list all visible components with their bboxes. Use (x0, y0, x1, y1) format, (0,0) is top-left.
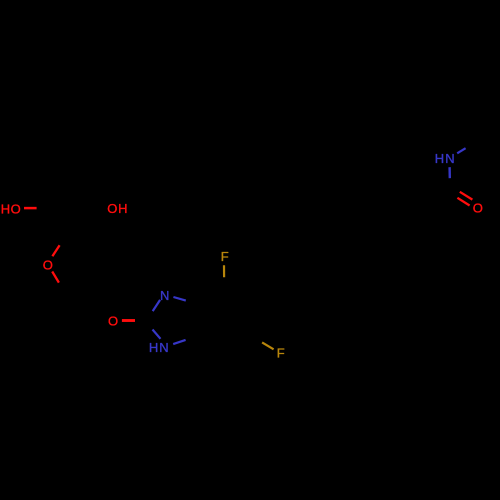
svg-text:O: O (108, 313, 118, 328)
svg-text:O: O (11, 201, 21, 216)
svg-text:H: H (435, 151, 444, 166)
svg-text:F: F (277, 346, 285, 361)
svg-text:O: O (43, 258, 53, 273)
svg-text:O: O (473, 201, 483, 216)
svg-text:N: N (159, 340, 168, 355)
svg-text:O: O (107, 201, 117, 216)
svg-text:H: H (1, 201, 10, 216)
svg-text:N: N (445, 151, 454, 166)
svg-text:N: N (160, 288, 169, 303)
svg-text:H: H (118, 201, 127, 216)
svg-text:H: H (149, 340, 158, 355)
svg-text:F: F (221, 249, 229, 264)
